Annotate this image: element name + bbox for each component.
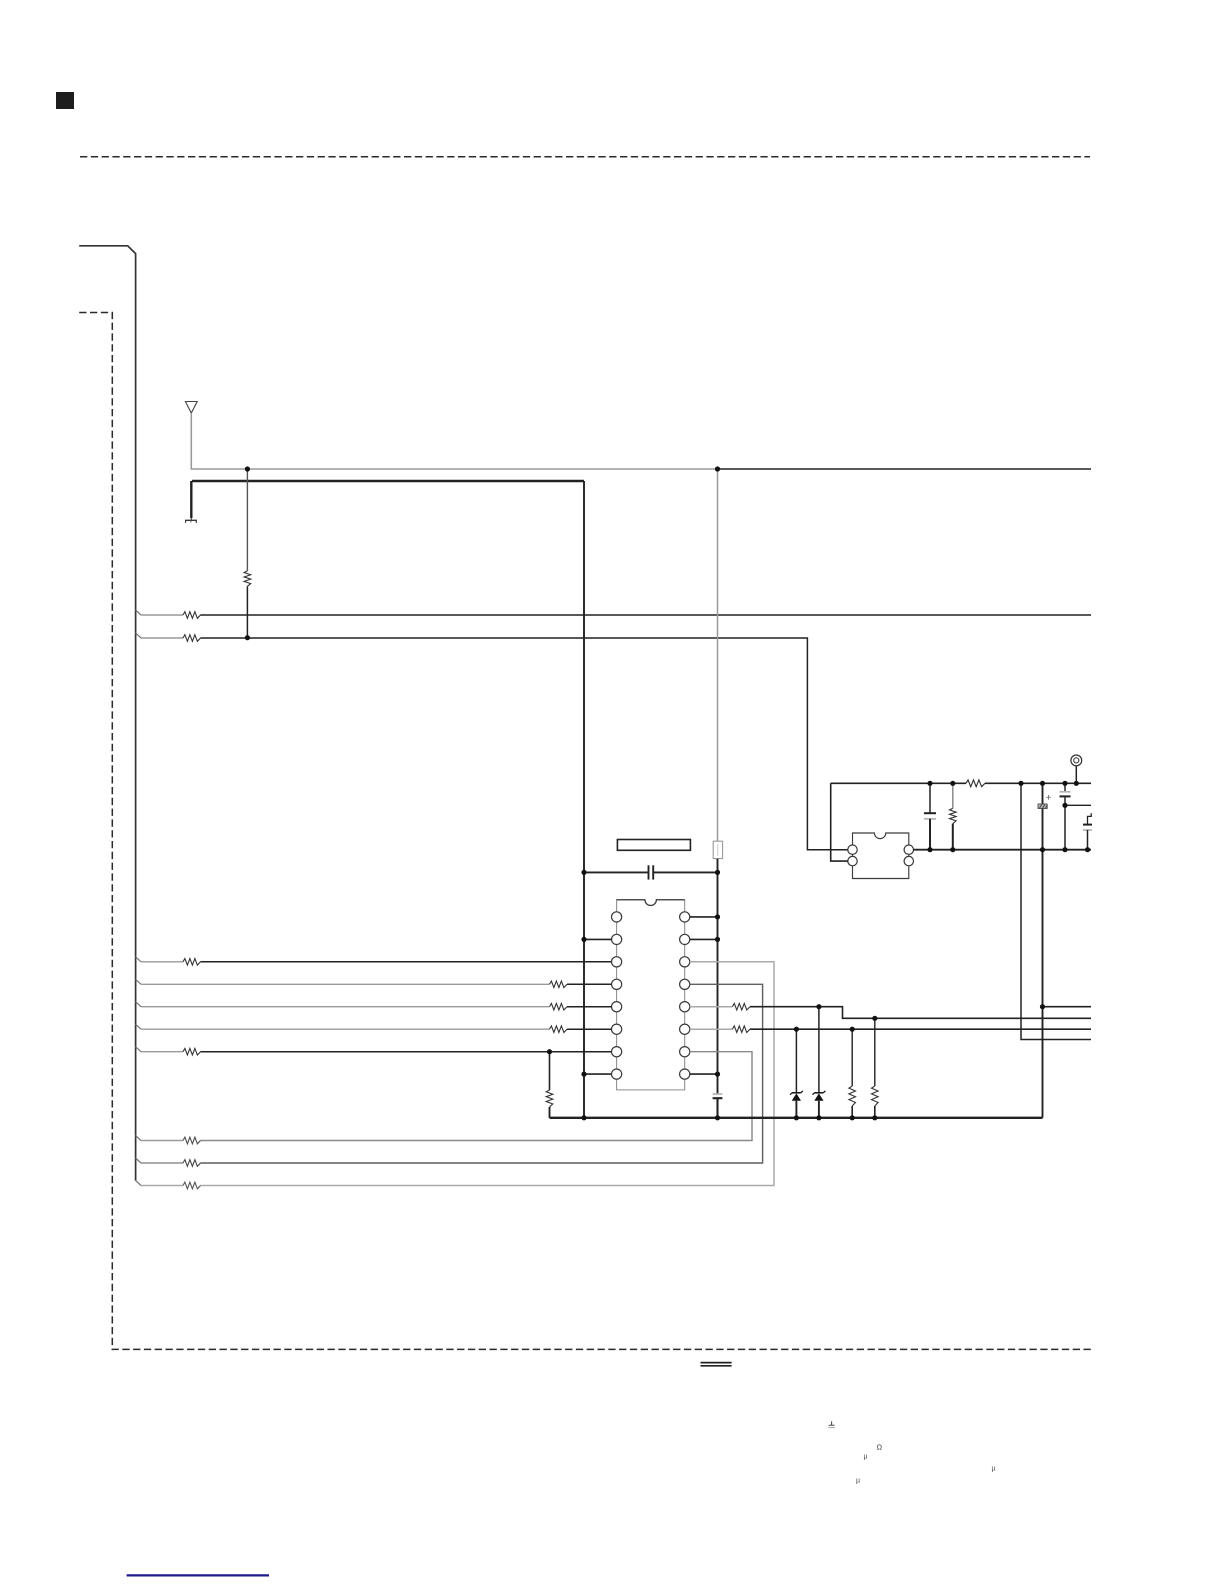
svg-text:Ω: Ω	[877, 1443, 883, 1452]
svg-text:µ: µ	[864, 1454, 868, 1461]
svg-text:µ: µ	[992, 1466, 996, 1473]
svg-text:µ: µ	[856, 1478, 860, 1485]
